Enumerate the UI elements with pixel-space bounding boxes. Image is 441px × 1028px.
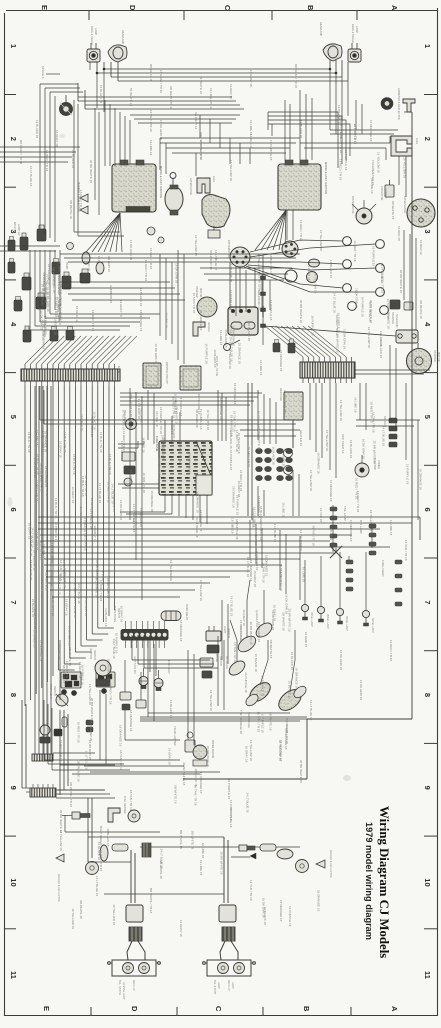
- svg-text:18 ORANGE 18: 18 ORANGE 18: [219, 398, 223, 420]
- svg-text:16 RED / TR 18: 16 RED / TR 18: [353, 240, 357, 261]
- distributor cap center: [227, 240, 250, 267]
- svg-text:HEADLAMP: HEADLAMP: [319, 22, 323, 37]
- svg-text:16 YELLOW 18: 16 YELLOW 18: [299, 530, 303, 551]
- engine gap horizontal wires: [160, 132, 300, 176]
- svg-text:16 YELLOW 18: 16 YELLOW 18: [199, 580, 203, 601]
- svg-text:16 PURPLE 18: 16 PURPLE 18: [344, 150, 348, 171]
- svg-text:16 TAN / TR 18: 16 TAN / TR 18: [233, 642, 237, 663]
- svg-text:STARTER: STARTER: [433, 350, 437, 362]
- svg-text:16 BLACK 18: 16 BLACK 18: [97, 842, 101, 861]
- svg-text:HORN RELAY: HORN RELAY: [185, 604, 188, 620]
- svg-text:PARK & SIGNAL: PARK & SIGNAL: [351, 24, 355, 44]
- scattered wire labels: [27, 105, 423, 937]
- ignition switch: [89, 648, 111, 686]
- svg-text:SOLENOID 16: SOLENOID 16: [209, 250, 213, 270]
- svg-text:DISTRIBUTOR: DISTRIBUTOR: [351, 196, 355, 214]
- svg-text:16 DK GRN 18: 16 DK GRN 18: [339, 650, 343, 670]
- wires between fuse area and resistor column: [240, 390, 300, 516]
- center mid horizontals y270: [200, 262, 292, 312]
- svg-text:16 LIME 18: 16 LIME 18: [155, 411, 159, 427]
- svg-text:18 ORANGE 18: 18 ORANGE 18: [129, 710, 133, 732]
- svg-text:SPLICE W: SPLICE W: [329, 528, 332, 541]
- TCS switch small: [390, 300, 413, 310]
- svg-text:16 PURPLE 18: 16 PURPLE 18: [179, 396, 183, 417]
- starter solenoid: [391, 312, 418, 343]
- svg-text:16 DK GRN 18: 16 DK GRN 18: [271, 610, 275, 630]
- splice X junction: [329, 528, 342, 558]
- svg-text:HEADLAMP: HEADLAMP: [121, 30, 125, 45]
- fuel sender left: [108, 796, 140, 822]
- svg-text:16 LIME 18: 16 LIME 18: [302, 567, 306, 583]
- svg-text:14 LT BLUE 18: 14 LT BLUE 18: [229, 807, 233, 828]
- horn relay pill: [161, 604, 188, 621]
- svg-text:16 BLACK 18: 16 BLACK 18: [263, 907, 267, 926]
- top secondary wires: [78, 83, 244, 110]
- svg-text:16 DK GRN 18: 16 DK GRN 18: [88, 740, 92, 760]
- svg-text:20 BR WHITE 18: 20 BR WHITE 18: [249, 622, 253, 645]
- mid horizontal harness y255: [60, 248, 300, 270]
- svg-text:14 LT BLUE 18: 14 LT BLUE 18: [229, 596, 233, 617]
- svg-text:14 LT BLUE 18: 14 LT BLUE 18: [368, 301, 372, 322]
- svg-text:7: 7: [9, 600, 18, 604]
- svg-text:SB GRAY / TR 18: SB GRAY / TR 18: [169, 86, 173, 110]
- svg-text:SB WHITE 18: SB WHITE 18: [269, 640, 273, 659]
- svg-text:18 ORANGE 18: 18 ORANGE 18: [106, 659, 110, 681]
- svg-text:16 RED / TR 18: 16 RED / TR 18: [338, 159, 342, 180]
- svg-text:14 LT BLUE 18: 14 LT BLUE 18: [160, 848, 164, 869]
- tail lamp wiring right: [219, 837, 238, 960]
- svg-text:18 ORANGE 18: 18 ORANGE 18: [387, 307, 391, 329]
- svg-text:E: E: [40, 5, 49, 10]
- svg-text:14 LT BLUE 18: 14 LT BLUE 18: [245, 792, 249, 813]
- svg-text:9: 9: [9, 786, 18, 790]
- svg-text:16 TAN / TR 18: 16 TAN / TR 18: [372, 412, 376, 433]
- svg-text:1979 model wiring diagram: 1979 model wiring diagram: [364, 822, 374, 940]
- svg-text:LAMP: LAMP: [355, 26, 359, 33]
- 4WD indicator cluster: [256, 448, 293, 480]
- svg-text:16 GRAY 18: 16 GRAY 18: [80, 414, 84, 431]
- engine blob (carburetor): [202, 195, 230, 238]
- svg-text:16 LIME 18: 16 LIME 18: [42, 544, 46, 560]
- svg-text:16 BLK / TR 18: 16 BLK / TR 18: [72, 454, 76, 475]
- bundle labels: [27, 432, 112, 616]
- svg-text:16 YELLOW 18: 16 YELLOW 18: [309, 470, 313, 491]
- svg-text:16 LIME 18: 16 LIME 18: [230, 518, 234, 534]
- svg-text:6: 6: [9, 508, 18, 512]
- svg-text:16 RED / TR 18: 16 RED / TR 18: [108, 683, 112, 704]
- svg-text:16 RED 18: 16 RED 18: [229, 84, 233, 99]
- svg-text:16 DK GRN 18: 16 DK GRN 18: [251, 507, 255, 527]
- svg-text:16 BLK / TR 18: 16 BLK / TR 18: [108, 454, 112, 475]
- svg-text:16 DK GRN 18: 16 DK GRN 18: [42, 329, 46, 349]
- svg-text:2: 2: [9, 137, 18, 141]
- svg-text:A: A: [390, 1006, 399, 1012]
- temp gauge: [244, 679, 274, 728]
- svg-text:16 YELLOW 18: 16 YELLOW 18: [237, 433, 241, 454]
- starter motor: [407, 349, 441, 374]
- svg-text:20 BR WHITE 18: 20 BR WHITE 18: [89, 160, 93, 183]
- tail lamp wiring left: [88, 850, 145, 960]
- svg-text:5: 5: [423, 415, 432, 419]
- svg-text:SB WHITE 18: SB WHITE 18: [42, 272, 46, 291]
- heater switch glyphs: [122, 452, 135, 486]
- svg-text:16 PURPLE 18: 16 PURPLE 18: [288, 906, 292, 927]
- misc top-left wires: [35, 84, 83, 242]
- svg-text:16 PURPLE 18: 16 PURPLE 18: [229, 290, 233, 311]
- small circles below module1: [147, 227, 164, 243]
- svg-text:20 BR WHITE 18: 20 BR WHITE 18: [257, 427, 261, 450]
- svg-text:SB WHITE 18: SB WHITE 18: [174, 785, 178, 804]
- svg-text:14 LT BLUE 18: 14 LT BLUE 18: [98, 483, 102, 504]
- svg-text:18 ORANGE 18: 18 ORANGE 18: [206, 745, 210, 767]
- turn signal column extension: [132, 635, 224, 710]
- svg-text:16 BLACK 18: 16 BLACK 18: [104, 608, 108, 627]
- svg-text:C: C: [223, 5, 232, 11]
- svg-text:16 TAN / TR 18: 16 TAN / TR 18: [312, 525, 316, 546]
- electric choke: [355, 455, 380, 477]
- svg-text:16 LIME 18: 16 LIME 18: [164, 312, 168, 328]
- svg-text:MARKER & REFLECTOR: MARKER & REFLECTOR: [57, 874, 60, 902]
- svg-text:TAIL, STOP &: TAIL, STOP &: [118, 980, 121, 995]
- svg-text:18 ORANGE 18: 18 ORANGE 18: [369, 120, 373, 142]
- bulkhead connector bar right: [300, 357, 355, 383]
- headlamp right: [319, 22, 342, 61]
- svg-text:16 LIME 18: 16 LIME 18: [281, 502, 285, 518]
- horn: [60, 95, 73, 116]
- svg-text:SB WHITE 18: SB WHITE 18: [336, 334, 340, 353]
- svg-text:16 DK GRN 18: 16 DK GRN 18: [354, 288, 358, 308]
- svg-text:16 DK GRN 18: 16 DK GRN 18: [40, 578, 44, 598]
- wires into bar top: [25, 336, 137, 364]
- svg-text:16 YELLOW 18: 16 YELLOW 18: [140, 403, 144, 424]
- svg-text:16 RED / TR 18: 16 RED / TR 18: [144, 260, 148, 281]
- svg-text:16 LIME 18: 16 LIME 18: [199, 860, 203, 876]
- svg-text:16 TAN / TR 18: 16 TAN / TR 18: [84, 475, 88, 496]
- extra left column components: [8, 237, 104, 342]
- high beam indicator: [123, 410, 137, 430]
- svg-text:BACK UP: BACK UP: [227, 980, 230, 991]
- svg-text:16 LIME / TR 18: 16 LIME / TR 18: [209, 88, 213, 110]
- svg-text:16 YELLOW 18: 16 YELLOW 18: [194, 235, 198, 256]
- svg-text:16 GRAY 18: 16 GRAY 18: [53, 318, 57, 335]
- svg-text:16 RED / TR 18: 16 RED / TR 18: [59, 740, 63, 761]
- turn indicator lamp sockets: [133, 656, 170, 691]
- svg-text:20 BR WHITE 18: 20 BR WHITE 18: [399, 270, 403, 293]
- svg-text:LT GREEN 18: LT GREEN 18: [139, 508, 143, 527]
- svg-text:16 YELLOW 18: 16 YELLOW 18: [169, 560, 173, 581]
- svg-text:SB WHITE 18: SB WHITE 18: [132, 514, 136, 533]
- svg-text:BACK UP: BACK UP: [13, 222, 16, 233]
- svg-text:16 GRAY 18: 16 GRAY 18: [119, 300, 123, 317]
- ammeter & reflector right: [381, 88, 401, 120]
- svg-text:14 LT BLUE 18: 14 LT BLUE 18: [380, 263, 384, 284]
- svg-text:16 LIME 18: 16 LIME 18: [149, 140, 153, 156]
- svg-text:16 DK GRN 18: 16 DK GRN 18: [154, 344, 158, 364]
- svg-text:16 YELLOW 18: 16 YELLOW 18: [79, 507, 83, 528]
- svg-text:16 YELLOW 18: 16 YELLOW 18: [325, 430, 329, 451]
- svg-text:16 LIME 18: 16 LIME 18: [170, 419, 174, 435]
- svg-text:18 ORANGE 18: 18 ORANGE 18: [279, 350, 283, 372]
- gauge wires: [230, 548, 366, 692]
- bundle lower run to rear strip: [32, 386, 53, 761]
- svg-text:16 DK GRN 18: 16 DK GRN 18: [342, 329, 346, 349]
- svg-text:LEFT TURN IND: LEFT TURN IND: [133, 656, 136, 674]
- svg-text:STOP LIGHT: STOP LIGHT: [49, 684, 52, 699]
- in-line fuse left: [62, 812, 90, 819]
- svg-text:16 RED / TR 18: 16 RED / TR 18: [356, 491, 360, 512]
- svg-text:16 GRAY 18: 16 GRAY 18: [93, 525, 97, 542]
- svg-text:MOTOR: MOTOR: [437, 352, 441, 362]
- svg-text:C: C: [214, 1006, 223, 1012]
- svg-text:14 LT BLUE 18: 14 LT BLUE 18: [195, 517, 199, 538]
- svg-text:16 YELLOW 18: 16 YELLOW 18: [249, 740, 253, 761]
- rear connector strip: [30, 782, 115, 807]
- svg-text:16 RED / TR 18: 16 RED / TR 18: [58, 285, 62, 306]
- svg-text:16 BLACK 18: 16 BLACK 18: [169, 700, 173, 719]
- svg-text:16 TAN / TR 18: 16 TAN / TR 18: [249, 880, 253, 901]
- svg-text:16 PURPLE 18: 16 PURPLE 18: [406, 464, 410, 485]
- starter motor (engine bay): [195, 286, 217, 317]
- bulkhead connector bar left: [21, 364, 121, 386]
- grid letters top: E D C B A: [40, 5, 399, 11]
- svg-text:16 RED / TR 18: 16 RED / TR 18: [107, 482, 111, 503]
- svg-text:18 ORANGE 18: 18 ORANGE 18: [39, 640, 43, 662]
- svg-text:16 LIME 18: 16 LIME 18: [304, 632, 308, 648]
- svg-text:14 LT BLUE 18: 14 LT BLUE 18: [50, 543, 54, 564]
- svg-text:18 ORANGE 18: 18 ORANGE 18: [112, 491, 116, 513]
- svg-text:ACC FEED 12: ACC FEED 12: [341, 434, 345, 454]
- svg-text:16 LIME 18: 16 LIME 18: [142, 437, 146, 453]
- svg-text:16 DK GRN 18: 16 DK GRN 18: [359, 680, 363, 700]
- svg-text:16 DK GRN 18: 16 DK GRN 18: [29, 560, 33, 580]
- svg-text:D: D: [128, 5, 137, 11]
- svg-text:14 LT BLUE 18: 14 LT BLUE 18: [273, 522, 277, 543]
- quadra-trac gauge: [254, 610, 275, 640]
- rear wires left: [65, 815, 300, 914]
- svg-text:16 DK GRN 18: 16 DK GRN 18: [362, 439, 366, 459]
- svg-text:16 DK GRN 18: 16 DK GRN 18: [337, 105, 341, 125]
- svg-text:14 LT BLUE 18: 14 LT BLUE 18: [333, 293, 337, 314]
- svg-text:SB WHITE 18: SB WHITE 18: [391, 201, 395, 220]
- svg-text:SB WHITE 18: SB WHITE 18: [269, 712, 273, 731]
- svg-text:16 PURPLE 18: 16 PURPLE 18: [227, 779, 231, 800]
- svg-text:Wiring Diagram CJ Models: Wiring Diagram CJ Models: [377, 806, 391, 958]
- svg-text:PARK & SIGNAL: PARK & SIGNAL: [90, 26, 94, 46]
- oil sender L bracket: [193, 322, 210, 336]
- svg-text:16 YELLOW 18: 16 YELLOW 18: [71, 908, 75, 929]
- bundle elbows: [59, 628, 114, 670]
- svg-text:18 ORANGE 18: 18 ORANGE 18: [179, 620, 183, 642]
- rear harness trunk right: [140, 710, 412, 794]
- svg-text:18 ORANGE 18: 18 ORANGE 18: [349, 520, 353, 542]
- svg-text:IGNITION: IGNITION: [89, 648, 92, 659]
- svg-text:14 RED / TR 18: 14 RED / TR 18: [79, 190, 83, 211]
- svg-text:CHOKE: CHOKE: [377, 460, 380, 469]
- svg-text:16 GRAY 18: 16 GRAY 18: [64, 599, 68, 616]
- svg-text:16 YELLOW 18: 16 YELLOW 18: [229, 160, 233, 181]
- svg-text:16 YELLOW 18: 16 YELLOW 18: [209, 690, 213, 711]
- paper smudges: [8, 134, 352, 781]
- svg-text:16 BLACK 18: 16 BLACK 18: [247, 323, 251, 342]
- svg-text:16 TAN / TR 18: 16 TAN / TR 18: [129, 790, 133, 811]
- svg-text:16 WHT / TR 18: 16 WHT / TR 18: [149, 110, 153, 132]
- svg-text:18 ORANGE 18: 18 ORANGE 18: [233, 383, 237, 405]
- svg-text:TAIL & STOP: TAIL & STOP: [213, 980, 216, 995]
- svg-text:SB WHITE / TR 18: SB WHITE / TR 18: [69, 782, 73, 807]
- svg-text:18 ORANGE 18: 18 ORANGE 18: [187, 453, 191, 475]
- svg-text:FUSE PANEL: FUSE PANEL: [155, 436, 159, 453]
- svg-text:DISTRIBUTOR: DISTRIBUTOR: [227, 240, 231, 258]
- alternator ellipse: [165, 173, 193, 216]
- svg-text:16 YELLOW 18: 16 YELLOW 18: [314, 272, 318, 293]
- svg-text:16 YELLOW 18: 16 YELLOW 18: [47, 264, 51, 285]
- voltage regulator module right (textured box): [278, 160, 328, 210]
- svg-text:PANEL LAMP: PANEL LAMP: [371, 618, 374, 633]
- svg-text:16 DK GRN 18: 16 DK GRN 18: [63, 568, 67, 588]
- svg-text:56 WHITE 18: 56 WHITE 18: [129, 88, 133, 106]
- svg-text:16 TAN / TR 18: 16 TAN / TR 18: [262, 562, 266, 583]
- svg-text:16 BLACK 18: 16 BLACK 18: [288, 681, 292, 700]
- top harness wires headlamps to cross-car: [96, 60, 348, 94]
- svg-text:18 ORANGE 18: 18 ORANGE 18: [77, 760, 81, 782]
- wiper washer switch cluster: [96, 672, 115, 694]
- svg-text:MODULE ASSY IGNITION: MODULE ASSY IGNITION: [159, 166, 163, 198]
- lamp socket circle left: [125, 190, 127, 200]
- svg-text:16 DK GRN 18: 16 DK GRN 18: [159, 120, 163, 140]
- voltmeter gauge: [235, 626, 258, 655]
- svg-text:16 DK GRN 18: 16 DK GRN 18: [255, 550, 259, 570]
- svg-text:SWITCH: SWITCH: [227, 628, 230, 638]
- svg-text:16 YELLOW 18: 16 YELLOW 18: [403, 157, 407, 178]
- right trunk upper extension: [406, 380, 418, 523]
- svg-text:SB GRAY 18: SB GRAY 18: [194, 112, 198, 130]
- svg-text:16 YELLOW 18: 16 YELLOW 18: [197, 394, 201, 415]
- svg-text:CAPACITOR: CAPACITOR: [380, 186, 383, 201]
- svg-text:16 GRAY 18: 16 GRAY 18: [244, 746, 248, 763]
- svg-text:16 YELLOW 18: 16 YELLOW 18: [89, 720, 93, 741]
- svg-text:14 LT BLUE 18: 14 LT BLUE 18: [157, 457, 161, 478]
- tail stop lamp left assembly: [107, 960, 161, 1000]
- svg-text:16 PURPLE 18: 16 PURPLE 18: [372, 246, 376, 267]
- svg-text:16 BLACK 18: 16 BLACK 18: [290, 652, 294, 671]
- svg-text:ASSY BLOWER MTR: ASSY BLOWER MTR: [283, 390, 286, 414]
- svg-text:16 RED / TR 18: 16 RED / TR 18: [45, 150, 49, 171]
- svg-text:6: 6: [423, 508, 432, 512]
- svg-text:11: 11: [9, 971, 18, 979]
- wires engine right area: [240, 100, 430, 374]
- svg-text:MARKER & REFLECTOR: MARKER & REFLECTOR: [329, 850, 332, 878]
- svg-text:16 PURPLE 18: 16 PURPLE 18: [360, 296, 364, 317]
- svg-text:16 BLACK 18: 16 BLACK 18: [272, 446, 276, 465]
- svg-text:14 LT BLUE 18: 14 LT BLUE 18: [214, 250, 218, 271]
- svg-text:16 PURPLE 18: 16 PURPLE 18: [353, 124, 357, 145]
- svg-text:DK GRN 18: DK GRN 18: [107, 256, 111, 272]
- svg-text:16 YELLOW 18: 16 YELLOW 18: [112, 904, 116, 925]
- marker & reflector rear left: [56, 843, 151, 902]
- svg-text:18 ORANGE 18: 18 ORANGE 18: [229, 415, 233, 437]
- extra switch glyphs lower mid: [120, 660, 180, 740]
- svg-text:RD GRAY / TR 18: RD GRAY / TR 18: [19, 140, 23, 164]
- svg-text:18 ORANGE 18: 18 ORANGE 18: [162, 438, 166, 460]
- svg-text:PANEL LAMP: PANEL LAMP: [345, 616, 348, 631]
- wires left of fuse panel: [118, 441, 159, 488]
- svg-text:16 LIME 18: 16 LIME 18: [353, 397, 357, 413]
- svg-text:16 PURPLE 18: 16 PURPLE 18: [260, 676, 264, 697]
- right trunk full extension: [404, 112, 412, 380]
- svg-text:20A / 16 18: 20A / 16 18: [129, 394, 133, 410]
- svg-text:16 LIME 18: 16 LIME 18: [259, 360, 263, 376]
- svg-text:D: D: [130, 1006, 139, 1012]
- svg-text:16 BLACK 18: 16 BLACK 18: [71, 150, 75, 169]
- svg-text:14 LT BLUE 18: 14 LT BLUE 18: [77, 583, 81, 604]
- svg-text:16 GRAY 18: 16 GRAY 18: [119, 606, 123, 623]
- courtesy lamp switch cluster: [61, 672, 81, 696]
- oil gauge: [225, 656, 247, 678]
- svg-text:BACK UP: BACK UP: [132, 980, 135, 991]
- svg-text:16 BLACK 18: 16 BLACK 18: [35, 120, 39, 139]
- park & signal lamp right: [348, 24, 361, 62]
- lower left rear wires: [44, 700, 200, 774]
- svg-text:16 RED / TR 18: 16 RED / TR 18: [35, 480, 39, 501]
- svg-text:16 DK GRN 18: 16 DK GRN 18: [174, 263, 178, 283]
- svg-text:16 BLK / TR 18: 16 BLK / TR 18: [54, 498, 58, 519]
- svg-text:16 DK GRN 18: 16 DK GRN 18: [199, 140, 203, 160]
- svg-text:TURN SIGNAL: TURN SIGNAL: [113, 606, 116, 623]
- printed circuit boxes: [143, 362, 201, 390]
- svg-text:16 DK GRN 18: 16 DK GRN 18: [229, 262, 233, 282]
- svg-text:COIL: COIL: [212, 176, 216, 183]
- svg-text:16 BLACK 18: 16 BLACK 18: [299, 120, 303, 139]
- svg-text:16 BLACK 18: 16 BLACK 18: [93, 411, 97, 430]
- svg-text:HORN RD 18: HORN RD 18: [109, 285, 113, 304]
- svg-text:20 BR WHITE 18: 20 BR WHITE 18: [372, 441, 376, 464]
- svg-text:TAIL LAMP: TAIL LAMP: [343, 506, 347, 521]
- svg-text:16 GRAY 18: 16 GRAY 18: [179, 920, 183, 937]
- svg-text:SPLICE C: SPLICE C: [41, 66, 45, 79]
- svg-text:18 ORANGE 18: 18 ORANGE 18: [231, 486, 235, 508]
- svg-text:16 PURPLE 18: 16 PURPLE 18: [244, 672, 248, 693]
- svg-text:16 TAN / TR 18: 16 TAN / TR 18: [247, 447, 251, 468]
- svg-text:16 GRAY 18: 16 GRAY 18: [242, 609, 246, 626]
- svg-text:18 GRAY 18: 18 GRAY 18: [75, 306, 79, 323]
- svg-text:16 YELLOW 18: 16 YELLOW 18: [278, 740, 282, 761]
- svg-text:JUMPER: JUMPER: [384, 188, 387, 198]
- reflector T bracket right: [403, 99, 415, 112]
- svg-text:16 YELLOW 18: 16 YELLOW 18: [122, 409, 126, 430]
- svg-text:14 LT BLUE 18: 14 LT BLUE 18: [89, 509, 93, 530]
- svg-text:16 GRAY 18: 16 GRAY 18: [58, 441, 62, 458]
- svg-text:18 ORANGE 18: 18 ORANGE 18: [150, 490, 154, 512]
- backup lamp switch connectors: [13, 222, 90, 342]
- svg-text:LAMP: LAMP: [94, 28, 98, 35]
- blower resistor box: [279, 388, 303, 420]
- svg-text:SB WHITE 18: SB WHITE 18: [62, 665, 66, 684]
- svg-text:18 ORANGE 18: 18 ORANGE 18: [94, 576, 98, 598]
- svg-text:9: 9: [423, 786, 432, 790]
- svg-text:16 BLACK 18: 16 BLACK 18: [254, 654, 258, 673]
- extra bus feeder drops: [250, 520, 300, 600]
- wiper motor: [193, 740, 214, 766]
- svg-text:16 LIME 18: 16 LIME 18: [370, 178, 374, 194]
- svg-text:10: 10: [423, 878, 432, 886]
- svg-text:16 GRAY 18: 16 GRAY 18: [307, 264, 311, 281]
- svg-text:16 DK GRN 18: 16 DK GRN 18: [106, 578, 110, 598]
- svg-text:LAMP: LAMP: [231, 982, 234, 989]
- center vertical wires engine to dash: [130, 250, 236, 600]
- svg-text:16 TAN / TR 18: 16 TAN / TR 18: [256, 712, 260, 733]
- dimmer switch: [40, 725, 50, 743]
- svg-text:16 LIME 18: 16 LIME 18: [57, 644, 61, 660]
